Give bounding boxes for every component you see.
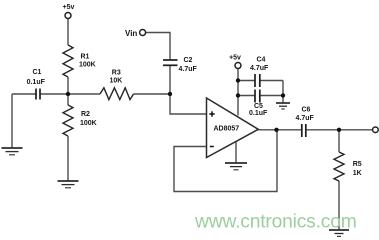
svg-text:C5: C5: [254, 103, 263, 110]
svg-text:4.7uF: 4.7uF: [179, 66, 198, 73]
svg-text:100K: 100K: [79, 62, 96, 69]
svg-text:Vin: Vin: [125, 29, 137, 38]
svg-text:+5v: +5v: [229, 55, 241, 62]
svg-text:0.1uF: 0.1uF: [249, 110, 268, 117]
svg-text:R3: R3: [112, 69, 121, 76]
svg-text:R5: R5: [353, 161, 362, 168]
svg-text:+5v: +5v: [63, 4, 75, 11]
svg-text:0.1uF: 0.1uF: [27, 79, 46, 86]
svg-text:R1: R1: [81, 54, 90, 61]
svg-text:1K: 1K: [353, 170, 362, 177]
svg-text:www.cntronics.com: www.cntronics.com: [194, 212, 357, 233]
svg-text:C6: C6: [302, 107, 311, 114]
svg-text:C2: C2: [184, 57, 193, 64]
svg-text:C1: C1: [33, 69, 42, 76]
svg-text:AD8057: AD8057: [214, 125, 240, 132]
svg-text:10K: 10K: [110, 77, 123, 84]
svg-text:4.7uF: 4.7uF: [250, 65, 269, 72]
svg-text:C4: C4: [257, 57, 266, 64]
svg-text:4.7uF: 4.7uF: [296, 115, 315, 122]
svg-text:100K: 100K: [80, 120, 97, 127]
svg-text:R2: R2: [81, 111, 90, 118]
